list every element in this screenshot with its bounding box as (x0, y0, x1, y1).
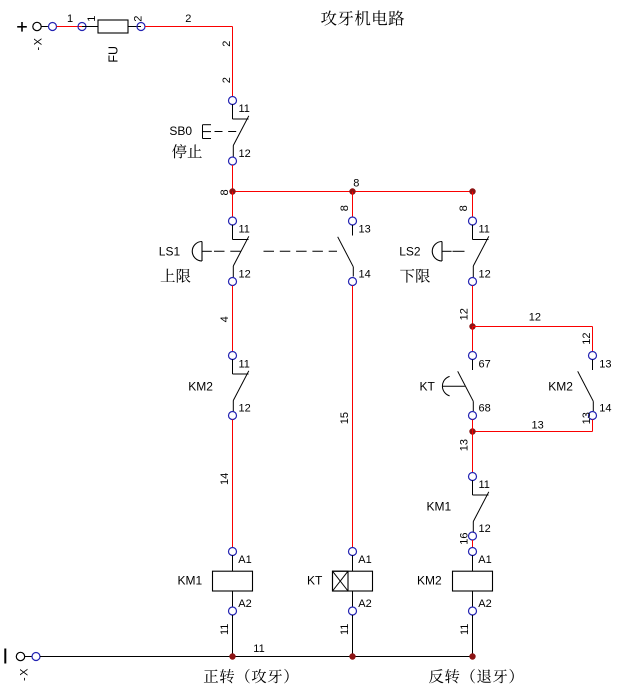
svg-text:16: 16 (459, 532, 471, 544)
wire label 13 (rotated, below node 12) (458, 439, 470, 451)
svg-text:A2: A2 (358, 598, 371, 610)
pin 2 of FU (137, 23, 145, 31)
pin A2 of KM2 coil (469, 607, 477, 615)
wire 13 (right branch down) (592, 420, 594, 432)
label KT (307, 574, 323, 588)
pin label 13 (359, 224, 371, 236)
pin label 14 (359, 269, 371, 281)
label KM1 (178, 574, 203, 588)
wire 1 (terminal to FU) (57, 26, 83, 28)
svg-text:11: 11 (239, 359, 250, 371)
wire 8 (bus to pin 13) (352, 192, 354, 218)
svg-text:KM2: KM2 (548, 380, 573, 394)
pin label A2 (478, 598, 491, 610)
svg-text:8: 8 (219, 189, 231, 195)
label 正转（攻牙） (204, 669, 289, 684)
pin 12 of LS2 (469, 278, 477, 286)
svg-text:KM1: KM1 (427, 500, 452, 514)
limit switch LS2 (NC contact) (473, 225, 489, 277)
label LS1 (159, 244, 181, 258)
wire to LS2 (472, 192, 474, 218)
svg-text:A1: A1 (238, 554, 251, 566)
svg-text:8: 8 (353, 177, 359, 189)
svg-text:SB0: SB0 (169, 124, 192, 138)
svg-text:12: 12 (479, 523, 491, 535)
pin label 12 (479, 269, 491, 281)
svg-text:FU: FU (107, 46, 121, 63)
wire label 8 (rotated, left of junction) (219, 189, 231, 195)
wire label 14 (rotated) (219, 473, 231, 485)
wire label 8 (rotated, below right junction) (458, 205, 470, 211)
wire label 2 (185, 13, 191, 25)
pin label A2 (238, 598, 251, 610)
pin label 12 (239, 403, 251, 415)
svg-text:KM2: KM2 (188, 380, 213, 394)
svg-text:13: 13 (599, 359, 611, 371)
mechanical link LS1 (dashed) (214, 250, 337, 252)
pin 67 of KT contact (469, 352, 477, 360)
wire 12 (LS2 to node) (472, 286, 474, 327)
pin 1 of FU (78, 23, 86, 31)
wire 2 (FU to SB0) (145, 27, 233, 97)
svg-text:15: 15 (339, 412, 351, 424)
wire to KT contact (472, 327, 474, 352)
pin 11 of KM1 contact (469, 473, 477, 481)
pin label 1 (rotated) (86, 16, 98, 22)
svg-text:13: 13 (359, 224, 371, 236)
svg-text:LS2: LS2 (399, 244, 421, 258)
wire label 13 (532, 420, 544, 432)
pin label 12 (479, 523, 491, 535)
terminal -X (bottom) (16, 652, 32, 660)
pin label 11 (479, 479, 490, 491)
svg-text:12: 12 (458, 308, 470, 320)
svg-text:13: 13 (458, 439, 470, 451)
svg-text:-X: -X (18, 667, 30, 681)
pin circle at bottom terminal (32, 653, 40, 661)
label KM2 (188, 380, 213, 394)
pin 14 of KM2 aux contact (589, 412, 597, 420)
LS2 actuator (roller) (432, 242, 451, 262)
pin 11 of LS1 (229, 217, 237, 225)
svg-text:2: 2 (221, 41, 233, 47)
wire label 2 (rotated, upper) (221, 41, 233, 47)
contactor contact KM2 (NC interlock) (233, 359, 249, 412)
wire 12 (horizontal) (473, 326, 593, 328)
svg-text:14: 14 (599, 403, 611, 415)
wire 11 (KT coil to bottom bus) (352, 615, 354, 657)
pin label A1 (358, 554, 371, 566)
pin 12 of SB0 (229, 157, 237, 165)
pin label 11 (239, 224, 250, 236)
wire label 8 (rotated, below middle junction) (339, 205, 351, 211)
pin label 2 (rotated) (133, 16, 145, 22)
pin label A2 (358, 598, 371, 610)
wire 14 (KM2 contact to KM1 coil) (232, 420, 234, 548)
LS1 auxiliary contact (NO) (338, 225, 354, 277)
- polarity marker (4, 649, 6, 664)
contactor contact KM1 (NC interlock) (473, 480, 489, 533)
label SB0 (169, 124, 192, 138)
timed contact KT (NO, on-delay) (458, 360, 474, 412)
label -X (top, rotated) (33, 37, 45, 51)
wire label 1 (67, 13, 73, 25)
label KM2 (548, 380, 573, 394)
wire 15 (contact to KT coil) (352, 286, 354, 548)
pin 11 of LS2 (469, 217, 477, 225)
svg-text:11: 11 (239, 224, 250, 236)
svg-text:2: 2 (185, 13, 191, 25)
pin label 11 (479, 224, 490, 236)
pin 11 of KM2 contact (229, 352, 237, 360)
pin 12 of LS1 (229, 278, 237, 286)
junction node 12 (469, 323, 475, 329)
pin label A1 (478, 554, 491, 566)
svg-text:12: 12 (239, 269, 251, 281)
wire 13 (horizontal) (473, 431, 593, 433)
svg-text:11: 11 (479, 224, 490, 236)
svg-text:11: 11 (479, 479, 490, 491)
pin label A1 (238, 554, 251, 566)
svg-text:4: 4 (219, 316, 231, 322)
svg-text:LS1: LS1 (159, 244, 181, 258)
svg-text:11: 11 (339, 624, 351, 635)
svg-text:2: 2 (221, 77, 233, 83)
svg-text:11: 11 (459, 624, 471, 635)
bottom bus wire 11 (40, 656, 473, 658)
svg-text:14: 14 (219, 473, 231, 485)
wire label 16 (rotated) (459, 532, 471, 544)
+ polarity marker (17, 22, 27, 32)
svg-text:11: 11 (253, 643, 264, 655)
label KM2 (417, 574, 442, 588)
pin label 13 (599, 359, 611, 371)
label 停止 (172, 144, 202, 158)
junction bottom KM1 (229, 653, 235, 659)
label 反转（退牙） (429, 669, 514, 684)
svg-text:8: 8 (339, 205, 351, 211)
svg-text:12: 12 (479, 269, 491, 281)
label 上限 (161, 269, 191, 283)
label LS2 (399, 244, 421, 258)
coil KT (333, 555, 373, 607)
wire label 12 (rotated, right branch) (581, 332, 593, 344)
wire to KM1 contact (472, 432, 474, 473)
wire label 13 (rotated, right branch) (581, 412, 593, 424)
svg-text:1: 1 (86, 16, 98, 22)
fuse FU (82, 20, 141, 33)
svg-text:14: 14 (359, 269, 371, 281)
wire label 12 (529, 312, 541, 324)
svg-text:A1: A1 (478, 554, 491, 566)
wire label 11 (rotated) (339, 624, 351, 635)
wire 4 (LS1 to KM2 contact) (232, 286, 234, 352)
wire 12 (down right branch) (592, 327, 594, 352)
junction bottom KT (349, 653, 355, 659)
wire 11 (KM2 coil to bottom bus) (472, 615, 474, 657)
LS1 actuator (roller) (192, 242, 212, 262)
pin 13 of LS1 contact (349, 217, 357, 225)
svg-text:A2: A2 (478, 598, 491, 610)
pin 68 of KT contact (469, 412, 477, 420)
terminal -X (top) (33, 22, 48, 30)
wire 16 (KM1 contact to KM2 coil) (472, 540, 474, 548)
svg-text:A2: A2 (238, 598, 251, 610)
pin A1 of KM1 coil (229, 548, 237, 556)
coil KM2 (453, 555, 493, 607)
junction at middle branch (349, 188, 355, 194)
svg-text:2: 2 (133, 16, 145, 22)
junction bottom KM2 (469, 653, 475, 659)
svg-text:1: 1 (67, 13, 73, 25)
label KM1 (427, 500, 452, 514)
limit switch LS1 (NC contact) (233, 225, 249, 277)
junction node 13 (469, 428, 475, 434)
svg-text:12: 12 (581, 332, 593, 344)
svg-text:12: 12 (529, 312, 541, 324)
pin A1 of KT coil (349, 548, 357, 556)
label FU (rotated) (107, 46, 121, 63)
wire 8 (SB0 to bus) (232, 165, 234, 192)
wire 13 (KT contact to node) (472, 420, 474, 432)
svg-text:68: 68 (479, 403, 491, 415)
wire 11 (KM1 coil to bottom bus) (232, 615, 234, 657)
pin 11 of SB0 (229, 97, 237, 105)
pin 13 of KM2 aux contact (589, 352, 597, 360)
wire to LS1 (232, 192, 234, 218)
svg-text:11: 11 (219, 624, 231, 635)
label 下限 (400, 269, 430, 283)
svg-text:13: 13 (581, 412, 593, 424)
svg-text:13: 13 (532, 420, 544, 432)
svg-text:11: 11 (239, 103, 250, 115)
wire label 2 (rotated, lower) (221, 77, 233, 83)
pin 14 of LS1 contact (349, 278, 357, 286)
title 攻牙机电路 (321, 10, 404, 25)
contactor contact KM2 (NO) (578, 360, 594, 412)
pin label 12 (239, 269, 251, 281)
wire label 4 (rotated) (219, 316, 231, 322)
coil KM1 (213, 555, 253, 607)
wire label 8 (above middle junction) (353, 177, 359, 189)
pin label 12 (239, 148, 251, 160)
wire label 12 (rotated) (458, 308, 470, 320)
pin 12 of KM2 contact (229, 412, 237, 420)
pin label 11 (239, 359, 250, 371)
SB0 actuator (E) and link (203, 125, 238, 139)
svg-text:12: 12 (239, 148, 251, 160)
push-button SB0 (NC contact) (233, 104, 249, 157)
junction at right branch (469, 188, 475, 194)
mechanical link LS2 (dashed) (453, 250, 465, 252)
svg-text:8: 8 (458, 205, 470, 211)
pin label 14 (599, 403, 611, 415)
junction at SB0/bus (229, 188, 235, 194)
pin 12 of KM1 contact (469, 532, 477, 540)
svg-text:12: 12 (239, 403, 251, 415)
svg-text:-X: -X (33, 37, 45, 51)
svg-text:67: 67 (479, 359, 491, 371)
label -X (bottom, rotated) (18, 667, 30, 681)
pin label 68 (479, 403, 491, 415)
bus node 8 (horizontal wire) (233, 191, 473, 193)
svg-text:KM2: KM2 (417, 574, 442, 588)
pin A2 of KT coil (349, 607, 357, 615)
KT delay symbol (arc) (442, 376, 465, 396)
pin label 11 (239, 103, 250, 115)
wire label 11 (rotated) (219, 624, 231, 635)
wire label 11 (rotated) (459, 624, 471, 635)
svg-text:A1: A1 (358, 554, 371, 566)
pin A1 of KM2 coil (469, 548, 477, 556)
svg-text:KT: KT (307, 574, 323, 588)
pin label 67 (479, 359, 491, 371)
svg-text:KM1: KM1 (178, 574, 203, 588)
wire label 11 (253, 643, 264, 655)
svg-text:KT: KT (420, 380, 436, 394)
wire label 15 (rotated) (339, 412, 351, 424)
pin A2 of KM1 coil (229, 607, 237, 615)
pin circle at terminal (49, 23, 57, 31)
label KT (420, 380, 436, 394)
